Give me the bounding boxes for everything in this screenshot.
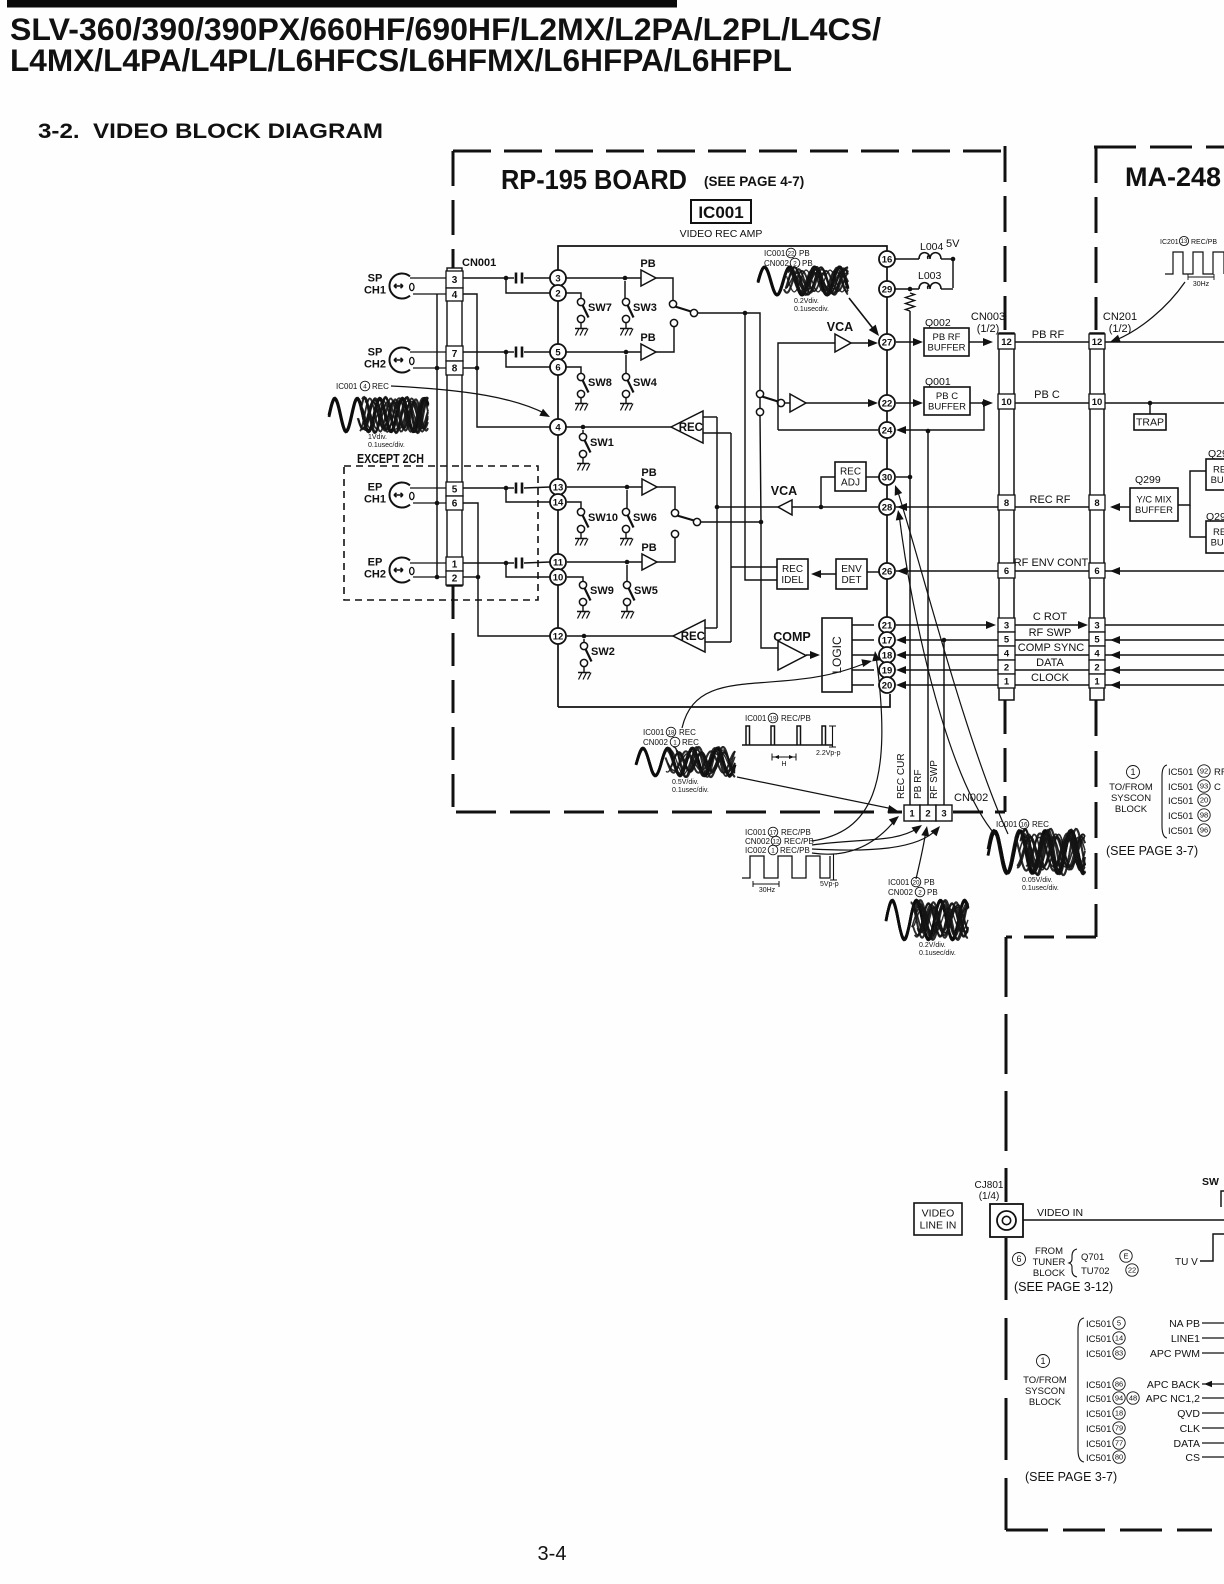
svg-text:22: 22 (1128, 1266, 1136, 1275)
svg-text:CH1: CH1 (364, 494, 386, 506)
svg-text:PB RF: PB RF (933, 332, 961, 343)
svg-text:EP: EP (368, 557, 383, 569)
circled 1 bottom syscon (1037, 1355, 1050, 1368)
svg-text:CN002: CN002 (643, 738, 668, 747)
svg-text:14: 14 (1115, 1334, 1123, 1343)
CJ801 RCA jack (990, 1204, 1023, 1237)
svg-text:17: 17 (882, 635, 893, 646)
svg-text:1: 1 (452, 560, 458, 571)
svg-text:CLK: CLK (1180, 1423, 1200, 1435)
svg-text:22: 22 (787, 250, 795, 257)
svg-text:5V: 5V (946, 238, 960, 250)
svg-text:PB: PB (640, 258, 655, 270)
svg-text:3-4: 3-4 (538, 1543, 567, 1565)
switch SW8 (575, 373, 612, 410)
svg-text:LOGIC: LOGIC (830, 636, 844, 674)
svg-text:3: 3 (452, 275, 458, 286)
svg-text:80: 80 (1115, 1453, 1123, 1462)
svg-text:IC501: IC501 (1086, 1453, 1111, 1464)
svg-text:(SEE PAGE 4-7): (SEE PAGE 4-7) (704, 174, 804, 189)
svg-text:Q701: Q701 (1081, 1252, 1104, 1263)
MA-248 board dashed outline (1006, 147, 1224, 1530)
interior bus wires (716, 417, 718, 628)
svg-text:IC001: IC001 (888, 878, 910, 887)
svg-text:4: 4 (363, 383, 367, 390)
svg-text:6: 6 (1094, 566, 1099, 577)
leader to CN002 pin2 (916, 830, 926, 879)
svg-text:VIDEO IN: VIDEO IN (1037, 1207, 1083, 1219)
svg-text:1: 1 (1094, 677, 1100, 688)
svg-text:96: 96 (1200, 826, 1208, 835)
wire pins6/2 to pin circle 12 (463, 503, 550, 636)
svg-text:NA PB: NA PB (1169, 1318, 1200, 1330)
svg-text:SYSCON: SYSCON (1025, 1386, 1065, 1397)
svg-text:5: 5 (1004, 635, 1010, 646)
svg-text:LINE IN: LINE IN (920, 1220, 957, 1232)
switch SW1 (577, 433, 614, 470)
svg-text:0.1usec/div.: 0.1usec/div. (919, 950, 956, 957)
svg-text:BUFFER: BUFFER (1135, 505, 1173, 516)
svg-text:86: 86 (1115, 1380, 1123, 1389)
selected PB output (698, 313, 760, 390)
svg-text:TO/FROM: TO/FROM (1023, 1375, 1067, 1386)
svg-text:5: 5 (555, 347, 561, 358)
svg-text:TU702: TU702 (1081, 1266, 1110, 1277)
coupling cap + wires (463, 562, 506, 564)
svg-text:RF SWP: RF SWP (1029, 627, 1072, 639)
svg-text:93: 93 (1200, 782, 1208, 791)
svg-text:IC001: IC001 (336, 382, 358, 391)
svg-text:H: H (781, 761, 786, 768)
leader curve to pin 18 (682, 662, 868, 728)
signal CLOCK (899, 684, 998, 686)
svg-text:BLOCK: BLOCK (1033, 1268, 1066, 1279)
resistor on REC CUR line (906, 293, 915, 311)
svg-text:CS: CS (1185, 1452, 1200, 1464)
signal RF ENV CONT (1015, 570, 1089, 572)
svg-text:18: 18 (1115, 1409, 1123, 1418)
svg-text:IC501: IC501 (1086, 1334, 1111, 1345)
ENV DET box (836, 559, 867, 589)
svg-text:REC/PB: REC/PB (781, 714, 811, 723)
switch SW7 (575, 298, 612, 335)
svg-text:VIDEO: VIDEO (922, 1208, 955, 1220)
svg-text:12: 12 (1092, 337, 1103, 348)
svg-text:REC/PB: REC/PB (1191, 239, 1217, 246)
svg-text:REC: REC (679, 422, 703, 434)
svg-text:83: 83 (1115, 1349, 1123, 1358)
LOGIC block (822, 618, 852, 692)
svg-text:17: 17 (769, 829, 777, 836)
svg-text:ENV: ENV (841, 564, 862, 575)
svg-text:8: 8 (1094, 498, 1099, 509)
svg-text:L003: L003 (918, 270, 942, 282)
REC ADJ box (821, 477, 835, 507)
svg-text:IC001: IC001 (996, 820, 1018, 829)
svg-text:PB: PB (640, 332, 655, 344)
svg-text:ADJ: ADJ (841, 478, 860, 489)
svg-text:19: 19 (769, 715, 777, 722)
RP-195 board dashed outline (453, 146, 1005, 812)
leader line to CN002 pin 1 (737, 777, 893, 809)
svg-text:BLOCK: BLOCK (1029, 1397, 1062, 1408)
svg-text:3: 3 (555, 273, 560, 284)
jack SP CH1 (389, 274, 410, 299)
svg-text:Q299: Q299 (1135, 474, 1161, 486)
svg-text:SW4: SW4 (633, 377, 658, 389)
svg-text:0.2V/div.: 0.2V/div. (919, 942, 946, 949)
wire Q001 output to pin 24 (899, 403, 984, 430)
svg-text:IC501: IC501 (1086, 1319, 1111, 1330)
signal PB RF (1015, 341, 1089, 343)
svg-text:REC: REC (372, 382, 389, 391)
svg-text:2: 2 (452, 574, 458, 585)
svg-text:PB: PB (802, 259, 813, 268)
pin24 line to VCA input (778, 429, 878, 431)
shield bus wire (436, 294, 438, 577)
svg-text:(1/2): (1/2) (1109, 323, 1132, 335)
svg-text:13: 13 (553, 482, 564, 493)
svg-text:10: 10 (1092, 397, 1103, 408)
svg-text:PB: PB (924, 878, 935, 887)
signal C ROT (896, 624, 990, 626)
svg-text:16: 16 (1020, 821, 1028, 828)
svg-text:2: 2 (1094, 663, 1099, 674)
svg-text:6: 6 (1004, 566, 1009, 577)
svg-text:PB RF: PB RF (913, 770, 924, 799)
svg-text:5Vp-p: 5Vp-p (820, 881, 839, 888)
svg-text:LINE1: LINE1 (1171, 1333, 1200, 1345)
svg-text:IC001: IC001 (745, 714, 767, 723)
svg-text:CLOCK: CLOCK (1031, 672, 1070, 684)
svg-text:RP-195 BOARD: RP-195 BOARD (501, 164, 687, 195)
EXCEPT 2CH dashed box (344, 466, 538, 600)
PB RF wire down to CN002 (927, 431, 929, 805)
svg-text:(1/4): (1/4) (979, 1191, 1000, 1202)
PB amp row4 (567, 561, 642, 563)
svg-text:CN002: CN002 (764, 259, 789, 268)
svg-text:SW3: SW3 (633, 302, 657, 314)
top black bar (7, 0, 677, 8)
svg-text:0.1usec/div.: 0.1usec/div. (672, 787, 709, 794)
switch SW4 (620, 373, 658, 410)
svg-text:IC001: IC001 (745, 828, 767, 837)
svg-text:11: 11 (553, 557, 564, 568)
svg-text:CN003: CN003 (971, 311, 1005, 323)
svg-text:3: 3 (1094, 621, 1099, 632)
inductor L003 (895, 288, 919, 290)
svg-text:APC PWM: APC PWM (1150, 1348, 1200, 1360)
svg-text:FROM: FROM (1035, 1246, 1063, 1257)
signal COMP SYNC (899, 654, 998, 656)
svg-text:REC/PB: REC/PB (780, 846, 810, 855)
circled 1 syscon ref (1127, 766, 1140, 779)
svg-text:SP: SP (368, 347, 383, 359)
svg-text:TU V: TU V (1175, 1257, 1198, 1268)
svg-text:APC NC1,2: APC NC1,2 (1146, 1393, 1200, 1405)
switch SW10 (575, 508, 618, 545)
svg-text:SW: SW (1202, 1176, 1219, 1188)
svg-text:IC001: IC001 (764, 249, 786, 258)
svg-text:SW2: SW2 (591, 646, 615, 658)
svg-text:IC201: IC201 (1160, 239, 1179, 246)
jack EP CH1 (389, 483, 410, 508)
svg-text:IC001: IC001 (643, 728, 665, 737)
svg-text:MA-248: MA-248 (1125, 162, 1221, 192)
RF SWP wire down to CN002 (943, 640, 945, 805)
switch SW6 (620, 508, 657, 545)
coupling cap + wires (463, 277, 506, 279)
svg-text:SW6: SW6 (633, 512, 657, 524)
svg-text:28: 28 (882, 502, 893, 513)
svg-text:PB: PB (641, 467, 656, 479)
svg-text:0.2Vdiv.: 0.2Vdiv. (794, 298, 819, 305)
svg-text:30: 30 (882, 472, 893, 483)
svg-text:CH2: CH2 (364, 359, 386, 371)
svg-text:PB C: PB C (936, 391, 958, 402)
bracket (1078, 1318, 1084, 1462)
svg-text:0.1usec/div.: 0.1usec/div. (1022, 885, 1059, 892)
svg-text:BLOCK: BLOCK (1115, 804, 1148, 815)
svg-text:12: 12 (772, 838, 780, 845)
svg-text:6: 6 (452, 499, 458, 510)
svg-text:DET: DET (842, 575, 862, 586)
svg-text:SW5: SW5 (634, 585, 658, 597)
svg-text:VIDEO REC AMP: VIDEO REC AMP (680, 228, 763, 240)
svg-text:94: 94 (1115, 1394, 1123, 1403)
svg-text:COMP SYNC: COMP SYNC (1018, 642, 1084, 654)
svg-text:2.2Vp-p: 2.2Vp-p (816, 750, 841, 757)
svg-text:REC: REC (1213, 527, 1224, 538)
svg-text:20: 20 (1200, 796, 1208, 805)
svg-text:SW7: SW7 (588, 302, 612, 314)
svg-text:3-2. VIDEO BLOCK DIAGRAM: 3-2. VIDEO BLOCK DIAGRAM (38, 119, 383, 143)
svg-text:PB: PB (927, 888, 938, 897)
switch SW5 (621, 581, 658, 618)
svg-text:CN002: CN002 (888, 888, 913, 897)
svg-text:1: 1 (909, 809, 915, 820)
svg-text:IC501: IC501 (1086, 1409, 1111, 1420)
inductor L004 + 5V (895, 258, 919, 260)
coupling cap + wires (463, 487, 506, 489)
REC amp upper (566, 426, 671, 428)
svg-text:21: 21 (882, 620, 893, 631)
IC001 bottom edge (558, 694, 890, 707)
svg-text:24: 24 (882, 425, 893, 436)
svg-text:98: 98 (1200, 811, 1208, 820)
svg-text:C ROT: C ROT (1033, 611, 1068, 623)
svg-text:77: 77 (1115, 1439, 1123, 1448)
svg-text:22: 22 (882, 398, 893, 409)
svg-text:CN001: CN001 (462, 257, 496, 269)
svg-text:(SEE PAGE 3-12): (SEE PAGE 3-12) (1014, 1280, 1113, 1294)
svg-text:EP: EP (368, 482, 383, 494)
svg-text:L004: L004 (920, 241, 944, 253)
svg-text:30Hz: 30Hz (759, 887, 776, 894)
svg-text:E: E (1123, 1252, 1128, 1261)
svg-text:IC501: IC501 (1086, 1394, 1111, 1405)
svg-text:REC RF: REC RF (1030, 494, 1071, 506)
svg-text:IDEL: IDEL (781, 575, 804, 586)
svg-text:6: 6 (555, 362, 560, 373)
svg-text:SW8: SW8 (588, 377, 612, 389)
switch SW3 (620, 298, 657, 335)
svg-text:IC002: IC002 (745, 846, 767, 855)
svg-text:REC CUR: REC CUR (896, 753, 907, 799)
svg-text:REC: REC (1032, 820, 1049, 829)
svg-text:16: 16 (882, 254, 893, 265)
leader curves from labels to CN002 (812, 828, 918, 845)
svg-text:12: 12 (553, 631, 564, 642)
leader curves to pins 28/30 (899, 514, 1000, 840)
IC001 label box (691, 200, 751, 223)
FROM TUNER BLOCK (1013, 1253, 1026, 1266)
switch SW9 (577, 581, 614, 618)
svg-text:26: 26 (882, 566, 893, 577)
svg-text:5: 5 (1117, 1319, 1121, 1328)
svg-text:10: 10 (1001, 397, 1012, 408)
svg-text:PB RF: PB RF (1032, 329, 1065, 341)
svg-text:IC501: IC501 (1086, 1424, 1111, 1435)
svg-text:48: 48 (1129, 1394, 1137, 1403)
leader to pin circle 4 (391, 386, 546, 414)
leader to CN201 pin 12 (1116, 282, 1185, 340)
svg-text:1: 1 (1004, 677, 1010, 688)
svg-text:BUFFER: BUFFER (928, 402, 966, 413)
TRAP box (1148, 401, 1153, 406)
svg-text:RF: RF (1214, 767, 1224, 778)
svg-text:2: 2 (1004, 663, 1009, 674)
svg-text:PB: PB (641, 542, 656, 554)
svg-text:REC/PB: REC/PB (781, 828, 811, 837)
svg-text:CH1: CH1 (364, 285, 386, 297)
amp to pin 22 (784, 402, 790, 404)
PB amp row1 (566, 277, 641, 279)
svg-text:REC: REC (840, 467, 861, 478)
svg-text:2: 2 (555, 288, 560, 299)
svg-text:IC501: IC501 (1086, 1349, 1111, 1360)
svg-text:7: 7 (452, 349, 458, 360)
wire pins4/8 to pin circle 4 (463, 294, 550, 427)
svg-text:20: 20 (912, 879, 920, 886)
VIDEO LINE IN box (914, 1203, 962, 1235)
REC amp lower (567, 635, 673, 637)
selector switch SP row (669, 300, 676, 307)
switch SW2 (578, 642, 615, 679)
svg-text:SW9: SW9 (590, 585, 614, 597)
svg-text:EXCEPT 2CH: EXCEPT 2CH (357, 452, 424, 466)
svg-text:IC501: IC501 (1168, 811, 1193, 822)
svg-text:REC: REC (679, 728, 696, 737)
svg-text:DATA: DATA (1036, 657, 1064, 669)
svg-text:IC501: IC501 (1168, 782, 1193, 793)
signal DATA (899, 669, 998, 671)
svg-text:29: 29 (882, 284, 893, 295)
svg-text:APC BACK: APC BACK (1147, 1379, 1200, 1391)
svg-text:TO/FROM: TO/FROM (1109, 782, 1153, 793)
svg-text:BUFFER: BUFFER (928, 343, 966, 354)
svg-text:VCA: VCA (771, 484, 797, 498)
svg-text:8: 8 (452, 364, 458, 375)
signal REC RF (1015, 506, 1089, 508)
svg-text:CH2: CH2 (364, 569, 386, 581)
svg-text:3: 3 (1004, 621, 1009, 632)
svg-text:1Vdiv.: 1Vdiv. (368, 434, 387, 441)
PB amp row3 (567, 486, 642, 488)
selector switch EP row (671, 509, 678, 516)
svg-text:L4MX/L4PA/L4PL/L6HFCS/L6HFMX/L: L4MX/L4PA/L4PL/L6HFCS/L6HFMX/L6HFPA/L6HF… (10, 42, 792, 78)
signal RF SWP (899, 639, 998, 641)
svg-text:14: 14 (553, 497, 564, 508)
svg-text:12: 12 (1001, 337, 1012, 348)
svg-text:Y/C MIX: Y/C MIX (1136, 495, 1172, 506)
svg-text:CN002: CN002 (954, 792, 988, 804)
svg-text:REC: REC (1213, 465, 1224, 476)
svg-text:SP: SP (368, 273, 383, 285)
svg-text:4: 4 (555, 422, 561, 433)
REC IDEL box (777, 559, 808, 589)
svg-text:13: 13 (1181, 239, 1188, 245)
VIDEO IN wire (1023, 1219, 1224, 1221)
svg-text:PB: PB (799, 249, 810, 258)
svg-text:IC501: IC501 (1168, 796, 1193, 807)
svg-text:18: 18 (882, 650, 893, 661)
svg-text:20: 20 (882, 680, 893, 691)
svg-text:1: 1 (1040, 1356, 1045, 1366)
svg-text:CN201: CN201 (1103, 311, 1137, 323)
svg-text:RF SWP: RF SWP (929, 760, 940, 799)
svg-text:(1/2): (1/2) (977, 323, 1000, 335)
svg-text:19: 19 (882, 665, 893, 676)
svg-text:27: 27 (882, 337, 893, 348)
svg-text:8: 8 (1004, 498, 1009, 509)
svg-text:6: 6 (1016, 1254, 1021, 1264)
svg-text:REC/PB: REC/PB (784, 837, 814, 846)
svg-text:CJ801: CJ801 (975, 1180, 1004, 1191)
svg-text:CN002: CN002 (745, 837, 770, 846)
svg-text:0.05V/div.: 0.05V/div. (1022, 877, 1053, 884)
jack EP CH2 (389, 557, 410, 582)
svg-text:4: 4 (452, 290, 458, 301)
svg-text:QVD: QVD (1177, 1408, 1200, 1420)
svg-text:VCA: VCA (827, 320, 853, 334)
svg-text:1: 1 (771, 847, 775, 854)
svg-text:REC: REC (782, 564, 803, 575)
svg-text:5: 5 (452, 485, 458, 496)
svg-text:PB C: PB C (1034, 389, 1060, 401)
svg-text:0.5V/div.: 0.5V/div. (672, 779, 699, 786)
svg-text:IC001: IC001 (698, 203, 743, 222)
jack SP CH2 (389, 348, 410, 373)
svg-text:TUNER: TUNER (1033, 1257, 1066, 1268)
svg-text:(SEE PAGE 3-7): (SEE PAGE 3-7) (1025, 1470, 1117, 1484)
svg-text:79: 79 (1115, 1424, 1123, 1433)
svg-text:10: 10 (553, 572, 564, 583)
svg-text:2: 2 (918, 889, 922, 896)
coupling cap + wires (463, 351, 506, 353)
svg-text:0.1usecdiv.: 0.1usecdiv. (794, 306, 829, 313)
svg-text:IC501: IC501 (1168, 767, 1193, 778)
PB amp row2 (566, 351, 641, 353)
svg-text:BUFF: BUFF (1211, 475, 1224, 486)
IC001 right pin circles (879, 251, 895, 267)
svg-text:92: 92 (1200, 767, 1208, 776)
REC CUR wire down to CN002 (909, 311, 911, 805)
svg-text:3: 3 (941, 809, 946, 820)
svg-text:2: 2 (925, 809, 930, 820)
svg-text:0.1usec/div.: 0.1usec/div. (368, 442, 405, 449)
REC/PB selector (756, 390, 763, 397)
